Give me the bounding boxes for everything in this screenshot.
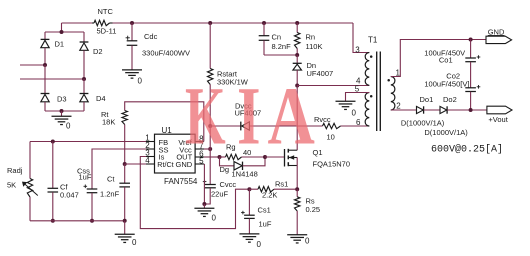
node: Rt/Ct pin junction bbox=[123, 162, 127, 166]
node: Vcc pin junction bbox=[208, 147, 212, 151]
capacitor Ct 1.2nF bbox=[100, 164, 130, 221]
capacitor Css 1uF bbox=[77, 166, 97, 221]
resistor Rn 110K bbox=[295, 23, 323, 55]
transformer T1 primary winding (pins 3-4) bbox=[355, 36, 378, 86]
diode D1 bbox=[41, 32, 64, 65]
svg-text:0: 0 bbox=[257, 240, 262, 249]
wire: SS line bbox=[92, 149, 146, 189]
svg-text:0.25: 0.25 bbox=[306, 205, 321, 214]
svg-text:D3: D3 bbox=[57, 95, 67, 104]
svg-text:18K: 18K bbox=[102, 118, 115, 127]
wire: FB line bbox=[30, 141, 146, 143]
svg-text:330uF/400WV: 330uF/400WV bbox=[142, 49, 190, 58]
pin 1 (FB) stub bbox=[145, 134, 154, 143]
wire: snubber RC join bbox=[264, 54, 297, 56]
resistor Rs 0.25 bbox=[295, 189, 321, 234]
svg-text:Rt/Ct: Rt/Ct bbox=[157, 160, 173, 169]
node: Cdc tap on bus bbox=[130, 21, 134, 25]
ground 0 (Rs) bbox=[287, 235, 310, 246]
svg-text:Rg: Rg bbox=[226, 143, 236, 152]
port +Vout bbox=[487, 106, 512, 124]
diode Dg 1N4148 bbox=[220, 157, 266, 179]
svg-text:Rn: Rn bbox=[306, 32, 316, 41]
capacitor Cs1 1uF bbox=[241, 189, 272, 234]
value label: output rating 600V@0.25[A] bbox=[431, 144, 503, 156]
svg-text:5D-11: 5D-11 bbox=[97, 27, 117, 36]
resistor Rt 18K bbox=[101, 110, 127, 127]
transistor Q1 FQA15N70 bbox=[285, 148, 351, 169]
ground 0 (IC) bbox=[194, 204, 216, 223]
wire: gate wire bbox=[265, 156, 285, 158]
node: Cn tap on bus bbox=[262, 21, 266, 25]
svg-text:10: 10 bbox=[327, 133, 335, 142]
capacitor Cn 8.2nF bbox=[259, 23, 291, 55]
diode Do1 D(1000V/1A) bbox=[417, 95, 434, 114]
svg-text:Dg: Dg bbox=[220, 165, 230, 174]
svg-text:FAN7554: FAN7554 bbox=[164, 177, 198, 186]
svg-text:Rvcc: Rvcc bbox=[314, 115, 331, 124]
node: drain / primary pin 4 junction bbox=[295, 84, 299, 88]
wire: pin4 to junction bbox=[125, 163, 146, 165]
op-amp U1 FAN7554 body bbox=[155, 126, 198, 186]
wire: pin 1 to GND bus bbox=[391, 40, 486, 77]
svg-text:Ct: Ct bbox=[107, 175, 115, 184]
wire: bus from bridge to NTC bbox=[62, 22, 93, 24]
svg-text:D(1000V/1A): D(1000V/1A) bbox=[424, 128, 468, 137]
svg-text:U1: U1 bbox=[162, 126, 173, 135]
svg-text:1.2nF: 1.2nF bbox=[100, 190, 120, 199]
wire: source vertical bbox=[296, 158, 298, 190]
svg-text:D2: D2 bbox=[93, 47, 103, 56]
wire: switch node to transformer pin 4 bbox=[297, 85, 369, 87]
svg-text:1uF: 1uF bbox=[79, 173, 92, 182]
wire: Dvcc to Rvcc (crosses drain, no connect) bbox=[250, 125, 323, 127]
value label: D(1000V/1A) for Do2 bbox=[424, 128, 468, 137]
node: Rstart tap on bus bbox=[208, 21, 212, 25]
svg-text:Rs1: Rs1 bbox=[275, 179, 288, 188]
wire: Vcc vertical bbox=[204, 126, 210, 184]
node: Rg left junction bbox=[218, 155, 222, 159]
svg-text:NTC: NTC bbox=[98, 7, 114, 16]
ground 0 (control rail) bbox=[115, 221, 137, 247]
transformer T1 aux winding (pins 5-6) bbox=[355, 84, 373, 127]
node: Co2 bottom junction bbox=[469, 108, 473, 112]
capacitor Co1 100uF/450V bbox=[424, 40, 480, 88]
wire: FB down to Radj bbox=[29, 142, 31, 179]
svg-text:A: A bbox=[268, 70, 315, 162]
node: Css bottom rail junction bbox=[90, 219, 94, 223]
thermistor NTC 5D-11 bbox=[92, 7, 116, 36]
pin 4 (Rt/Ct) stub bbox=[145, 156, 154, 165]
svg-text:T1: T1 bbox=[368, 36, 378, 45]
svg-text:Do1: Do1 bbox=[420, 95, 434, 104]
wire: AC input line 1 bbox=[20, 64, 45, 66]
resistor Rstart 330K/1W bbox=[208, 23, 249, 126]
svg-text:8.2nF: 8.2nF bbox=[272, 42, 292, 51]
pin 6 (OUT) stub bbox=[195, 150, 204, 159]
svg-text:D4: D4 bbox=[96, 94, 106, 103]
svg-text:Cvcc: Cvcc bbox=[220, 180, 237, 189]
svg-text:22uF: 22uF bbox=[211, 190, 229, 199]
ground 0 (Cdc) bbox=[122, 70, 143, 86]
pin 7 (Vcc) stub bbox=[195, 142, 204, 151]
svg-text:6: 6 bbox=[356, 118, 361, 127]
svg-text:0: 0 bbox=[138, 77, 143, 86]
wire: bottom rail bbox=[30, 220, 125, 222]
diode D3 bbox=[41, 65, 67, 111]
svg-text:0: 0 bbox=[132, 238, 137, 247]
wire: Do1 to Do2 bbox=[424, 109, 440, 111]
ground 0 (Cs1) bbox=[239, 234, 261, 249]
node: Rg right junction bbox=[263, 155, 267, 159]
svg-text:Cdc: Cdc bbox=[144, 32, 158, 41]
svg-text:GND: GND bbox=[488, 27, 505, 36]
pin 8 (Vref) stub bbox=[195, 134, 204, 143]
resistor Rg 40 bbox=[220, 143, 266, 160]
svg-text:600V@0.25[A]: 600V@0.25[A] bbox=[431, 144, 503, 156]
resistor Rs1 2.2K bbox=[249, 179, 297, 199]
svg-text:Cs1: Cs1 bbox=[258, 206, 271, 215]
svg-text:0: 0 bbox=[66, 122, 71, 131]
node: rail-ground junction bbox=[123, 219, 127, 223]
diode D4 bbox=[80, 79, 106, 111]
diode Do2 D(1000V/1A) bbox=[440, 95, 457, 114]
wire: OUT to Rg bbox=[204, 156, 220, 158]
wire: Vref riser to Rt bbox=[125, 102, 204, 142]
value label: D(1000V/1A) for Do1 bbox=[401, 118, 445, 127]
node: bridge DC+ junction bbox=[60, 30, 64, 34]
wire: bus drop to pin 3 bbox=[353, 23, 369, 53]
svg-text:100uF/450[V]: 100uF/450[V] bbox=[424, 79, 469, 88]
svg-text:D1: D1 bbox=[55, 40, 65, 49]
svg-text:FQA15N70: FQA15N70 bbox=[313, 160, 351, 169]
node: Rs1/Cs1 junction bbox=[247, 187, 251, 191]
diode D2 bbox=[80, 32, 103, 79]
svg-text:K: K bbox=[185, 71, 226, 163]
svg-text:0: 0 bbox=[212, 214, 217, 223]
transformer T1 core bbox=[377, 52, 381, 132]
port GND bbox=[486, 27, 512, 43]
wire: pin 5 to ground bbox=[346, 93, 370, 102]
svg-text:0.047: 0.047 bbox=[60, 190, 79, 199]
resistor Radj 5K (adjustable) bbox=[7, 166, 38, 197]
svg-text:2.2K: 2.2K bbox=[262, 191, 277, 200]
capacitor Cdc 330uF/400WV bbox=[126, 23, 190, 70]
ground 0 (aux) bbox=[336, 101, 357, 117]
ground 0 (bridge) bbox=[52, 111, 72, 131]
node: source sense junction bbox=[295, 187, 299, 191]
pin 5 (GND) stub bbox=[195, 157, 204, 166]
svg-text:D(1000V/1A): D(1000V/1A) bbox=[401, 118, 445, 127]
svg-text:110K: 110K bbox=[306, 42, 323, 51]
node: D1-D3 AC junction bbox=[43, 63, 47, 67]
svg-text:0: 0 bbox=[305, 237, 310, 246]
node: Vcc-Dvcc junction bbox=[208, 124, 212, 128]
svg-text:3: 3 bbox=[355, 45, 360, 54]
svg-text:Cn: Cn bbox=[272, 32, 282, 41]
diode Dn UF4007 bbox=[293, 55, 333, 86]
node: Cf bottom rail junction bbox=[51, 219, 55, 223]
node: Co1 top junction bbox=[469, 38, 473, 42]
wire: drain vertical bbox=[296, 86, 298, 151]
diode Dvcc UF4007 bbox=[235, 102, 262, 131]
pin 2 (SS) stub bbox=[145, 141, 154, 150]
svg-text:Do2: Do2 bbox=[443, 95, 457, 104]
svg-text:4: 4 bbox=[145, 156, 150, 165]
node: bridge minus junction bbox=[60, 109, 64, 113]
wire: Rt to Rt/Ct junction bbox=[124, 125, 126, 165]
wire: Vcc line to Dvcc bbox=[210, 125, 241, 127]
wire: GND pin down bbox=[203, 164, 205, 204]
transformer T1 secondary winding (pins 1-2) bbox=[387, 69, 401, 111]
capacitor Co2 100uF/450[V] bbox=[424, 71, 480, 110]
svg-text:2: 2 bbox=[396, 102, 401, 111]
wire: Radj to bottom rail bbox=[29, 197, 31, 221]
wire: Do2 to +Vout bbox=[447, 109, 487, 111]
wire: Is sense routing bbox=[140, 157, 249, 229]
wire: pin 2 to Do1 bbox=[391, 109, 417, 111]
svg-text:Radj: Radj bbox=[7, 166, 23, 175]
wire: top DC bus bbox=[113, 22, 354, 24]
pin 3 (Is) stub bbox=[145, 149, 154, 158]
svg-text:5K: 5K bbox=[7, 181, 16, 190]
node: Rn tap on bus bbox=[295, 21, 299, 25]
node: D2-D4 AC junction bbox=[82, 77, 86, 81]
svg-text:Co1: Co1 bbox=[439, 55, 453, 64]
resistor Rvcc 10 bbox=[314, 115, 341, 142]
node: snubber top of Dn bbox=[295, 53, 299, 57]
capacitor Cvcc 22uF bbox=[203, 180, 237, 204]
svg-text:1N4148: 1N4148 bbox=[232, 170, 258, 179]
node: Cf tap on FB line bbox=[51, 140, 55, 144]
svg-text:0: 0 bbox=[352, 109, 357, 118]
wire: bridge top rail bbox=[45, 23, 84, 32]
node: IC ground junction bbox=[202, 202, 206, 206]
svg-text:I: I bbox=[237, 69, 261, 162]
capacitor Cf 0.047 bbox=[48, 142, 79, 221]
svg-text:1uF: 1uF bbox=[259, 220, 272, 229]
wire: bridge bottom rail bbox=[45, 110, 84, 112]
watermark KIA bbox=[185, 69, 315, 162]
svg-text:+Vout: +Vout bbox=[488, 115, 508, 124]
wire: AC input line 2 bbox=[20, 78, 84, 80]
wire: Rvcc to transformer pin 6 bbox=[341, 125, 370, 127]
